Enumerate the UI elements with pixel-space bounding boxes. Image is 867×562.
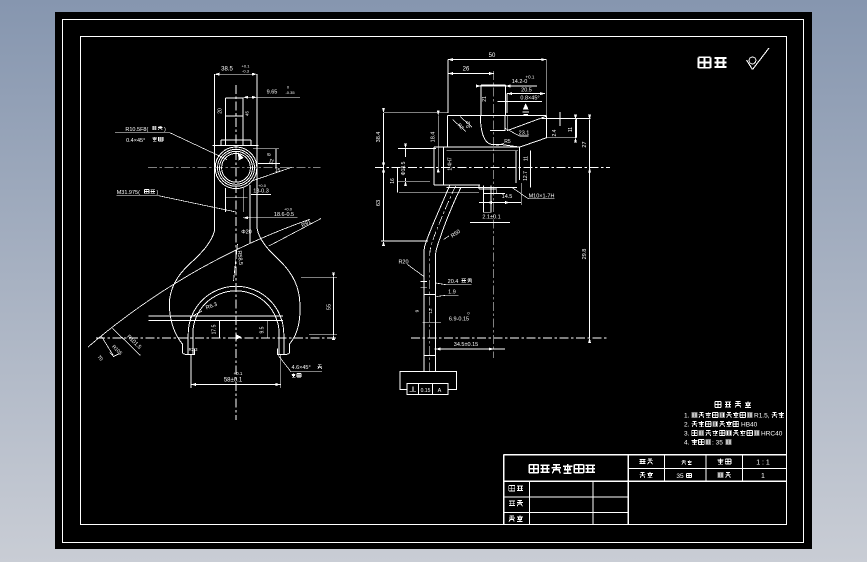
svg-text:+0.0: +0.0 (284, 207, 293, 212)
svg-text:4.6×45°: 4.6×45° (292, 365, 311, 371)
svg-text:9.65: 9.65 (267, 90, 278, 96)
svg-text:1 : 1: 1 : 1 (756, 460, 770, 467)
svg-text:17.5: 17.5 (212, 324, 218, 334)
svg-text:12: 12 (428, 308, 434, 314)
svg-text:2.4: 2.4 (552, 129, 558, 136)
svg-text:1.4H7: 1.4H7 (448, 157, 454, 171)
svg-text:): ) (157, 190, 159, 196)
svg-text:3.: 3. (684, 431, 690, 438)
svg-text:A: A (438, 388, 442, 394)
svg-text:+0.0: +0.0 (258, 183, 267, 188)
svg-text:R10.5F8(: R10.5F8( (125, 127, 148, 133)
svg-text:-0.35: -0.35 (285, 90, 295, 95)
svg-text:13-0.3: 13-0.3 (253, 189, 269, 195)
svg-text:34.5±0.15: 34.5±0.15 (454, 342, 478, 348)
svg-text:R2.3: R2.3 (189, 347, 199, 352)
svg-text:16: 16 (390, 178, 396, 184)
svg-text:55: 55 (327, 304, 333, 310)
svg-text:12.7: 12.7 (523, 171, 529, 181)
svg-text:21: 21 (482, 96, 488, 102)
svg-text:27: 27 (582, 141, 588, 147)
svg-text:Φ18.5: Φ18.5 (401, 161, 407, 175)
svg-text:11: 11 (568, 127, 574, 132)
svg-text:0.15: 0.15 (421, 388, 431, 394)
svg-text:M31.975(: M31.975( (117, 190, 140, 196)
svg-text:9.5: 9.5 (260, 326, 266, 333)
svg-text:: 35: : 35 (712, 440, 723, 447)
svg-text:1.9: 1.9 (448, 289, 456, 295)
svg-text:14.2-0: 14.2-0 (512, 79, 528, 85)
svg-text:9.2: 9.2 (466, 121, 472, 128)
svg-text:6.9-0.15: 6.9-0.15 (449, 317, 469, 323)
svg-text:45: 45 (245, 111, 250, 117)
svg-text:26: 26 (463, 67, 470, 73)
svg-text:29.8: 29.8 (582, 249, 588, 260)
svg-text:+0.1: +0.1 (234, 371, 243, 376)
svg-text:18.6-0.5: 18.6-0.5 (274, 212, 294, 218)
svg-text:-0.3: -0.3 (242, 69, 250, 74)
svg-text:): ) (164, 127, 166, 133)
svg-text:HB40: HB40 (741, 422, 758, 429)
svg-text:23.1: 23.1 (519, 131, 530, 137)
svg-text:35: 35 (676, 473, 684, 480)
svg-text:R20: R20 (398, 260, 408, 266)
svg-text:18.4: 18.4 (431, 132, 437, 143)
svg-text:R1.5,: R1.5, (754, 413, 770, 420)
svg-text:0.4×45°: 0.4×45° (126, 138, 145, 144)
svg-text:58±0.1: 58±0.1 (224, 378, 243, 384)
svg-text:R5: R5 (504, 139, 511, 145)
svg-text:2.: 2. (684, 422, 690, 429)
svg-text:HRC40: HRC40 (761, 431, 783, 438)
svg-text:20.4: 20.4 (448, 279, 459, 285)
svg-text:14.5: 14.5 (502, 194, 513, 200)
svg-text:63: 63 (376, 200, 382, 206)
svg-text:Φ20: Φ20 (241, 230, 252, 236)
svg-text:1.: 1. (684, 413, 690, 420)
svg-text:38.5: 38.5 (221, 67, 233, 73)
svg-text:20: 20 (218, 108, 224, 114)
svg-text:50: 50 (489, 53, 496, 59)
svg-text:1: 1 (761, 473, 765, 480)
svg-text:11: 11 (523, 156, 529, 161)
svg-text:9: 9 (415, 309, 421, 312)
svg-text:38.4: 38.4 (376, 132, 382, 143)
svg-text:0.8×45°: 0.8×45° (520, 95, 539, 101)
svg-text:20.5: 20.5 (521, 88, 532, 94)
svg-text:2.1±0.1: 2.1±0.1 (482, 215, 500, 221)
svg-text:4.: 4. (684, 440, 690, 447)
